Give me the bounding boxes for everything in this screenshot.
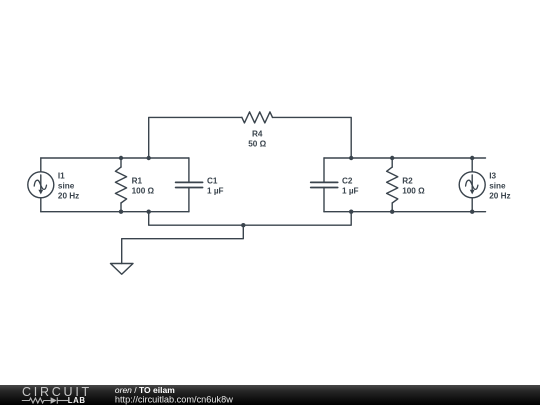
label R4 value <box>248 130 266 149</box>
junction node R4 right drop <box>349 156 353 160</box>
svg-text:LAB: LAB <box>68 396 86 405</box>
wire top-right from R4 to right tank <box>273 117 352 158</box>
ground <box>111 264 134 275</box>
junction node R4 left drop <box>147 156 151 160</box>
label I3 value <box>489 172 510 201</box>
label R1 value <box>132 177 155 196</box>
label C2 value <box>342 177 359 196</box>
CircuitLab logo <box>22 385 92 405</box>
footer bar <box>0 385 540 405</box>
junction node I3 top <box>470 156 474 160</box>
label I1 value <box>58 172 79 201</box>
svg-text:http://circuitlab.com/cn6uk8w: http://circuitlab.com/cn6uk8w <box>115 394 233 404</box>
wire bottom bus connecting both tanks <box>149 212 352 226</box>
current source I3 <box>459 158 485 212</box>
wire right loop bottom rail <box>324 211 486 213</box>
junction node R2 top <box>390 156 394 160</box>
capacitor C1 <box>176 158 203 212</box>
junction node bus left drop <box>147 210 151 214</box>
resistor R2 <box>387 158 398 212</box>
wire left loop bottom rail <box>41 211 189 213</box>
current source I1 <box>28 158 54 212</box>
junction node R2 bottom <box>390 210 394 214</box>
resistor R1 <box>115 158 126 212</box>
wire ground branch <box>122 225 244 263</box>
label C1 value <box>207 177 224 196</box>
wire top-left vertical from R4 rail down to left tank <box>149 117 242 158</box>
junction node I3 bottom <box>470 210 474 214</box>
resistor R4 <box>242 112 273 123</box>
wire left loop top rail <box>41 157 189 159</box>
label R2 value <box>402 177 425 196</box>
footer title text <box>115 385 233 405</box>
wire right loop top rail <box>324 157 486 159</box>
capacitor C2 <box>311 158 338 212</box>
junction node R1 bottom <box>119 210 123 214</box>
junction node R1 top <box>119 156 123 160</box>
junction node ground tap <box>241 223 245 227</box>
svg-text:oren / TO eilam: oren / TO eilam <box>115 385 175 395</box>
junction node bus right drop <box>349 210 353 214</box>
